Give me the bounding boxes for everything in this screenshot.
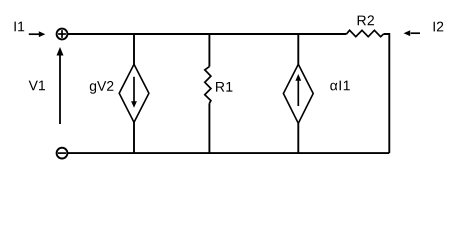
dependent source alpha-I1 (diamond) — [283, 64, 313, 123]
voltage arrow V1 — [57, 47, 64, 124]
dependent source gV2 (diamond) — [119, 64, 149, 122]
wire right side with corner — [384, 34, 390, 153]
terminal minus (port 1 bottom) — [57, 148, 68, 159]
alpha-I1 arrow (upward) — [295, 74, 301, 106]
wire gV2 branch top — [133, 34, 135, 65]
wire alpha-I1 branch bottom — [297, 123, 299, 153]
label alpha-I1 — [330, 81, 349, 91]
wire R1 branch top — [208, 34, 210, 67]
resistor R1 (vertical zigzag) — [205, 67, 211, 104]
wire alpha-I1 branch top — [297, 34, 299, 65]
wire R1 branch bottom — [208, 103, 210, 153]
label R2 — [358, 15, 374, 25]
label R1 — [216, 82, 232, 92]
label I1 — [14, 22, 24, 32]
gV2 arrow (downward) — [131, 77, 137, 108]
current arrow I2 — [404, 30, 420, 36]
label I2 — [434, 22, 444, 32]
label gV2 — [90, 81, 114, 94]
current arrow I1 — [29, 31, 46, 37]
resistor R2 (horizontal zigzag) — [347, 30, 384, 36]
wire gV2 branch bottom — [133, 122, 135, 153]
wire top node — [68, 33, 347, 35]
terminal plus (port 1 top) — [57, 29, 68, 40]
wire bottom node — [68, 152, 390, 154]
label V1 — [29, 81, 45, 91]
